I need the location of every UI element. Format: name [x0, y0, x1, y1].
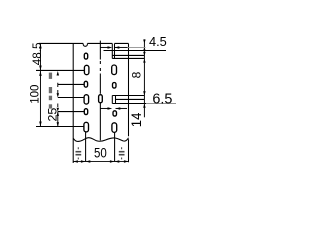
svg-text:6.5: 6.5 [152, 92, 172, 108]
svg-text:8: 8 [129, 71, 143, 78]
svg-text:25: 25 [46, 108, 60, 122]
svg-text:50: 50 [94, 145, 107, 161]
svg-text:48.5: 48.5 [31, 42, 44, 65]
svg-text:4.5: 4.5 [149, 34, 167, 49]
svg-text:14: 14 [128, 112, 144, 127]
svg-text:100: 100 [29, 85, 41, 104]
